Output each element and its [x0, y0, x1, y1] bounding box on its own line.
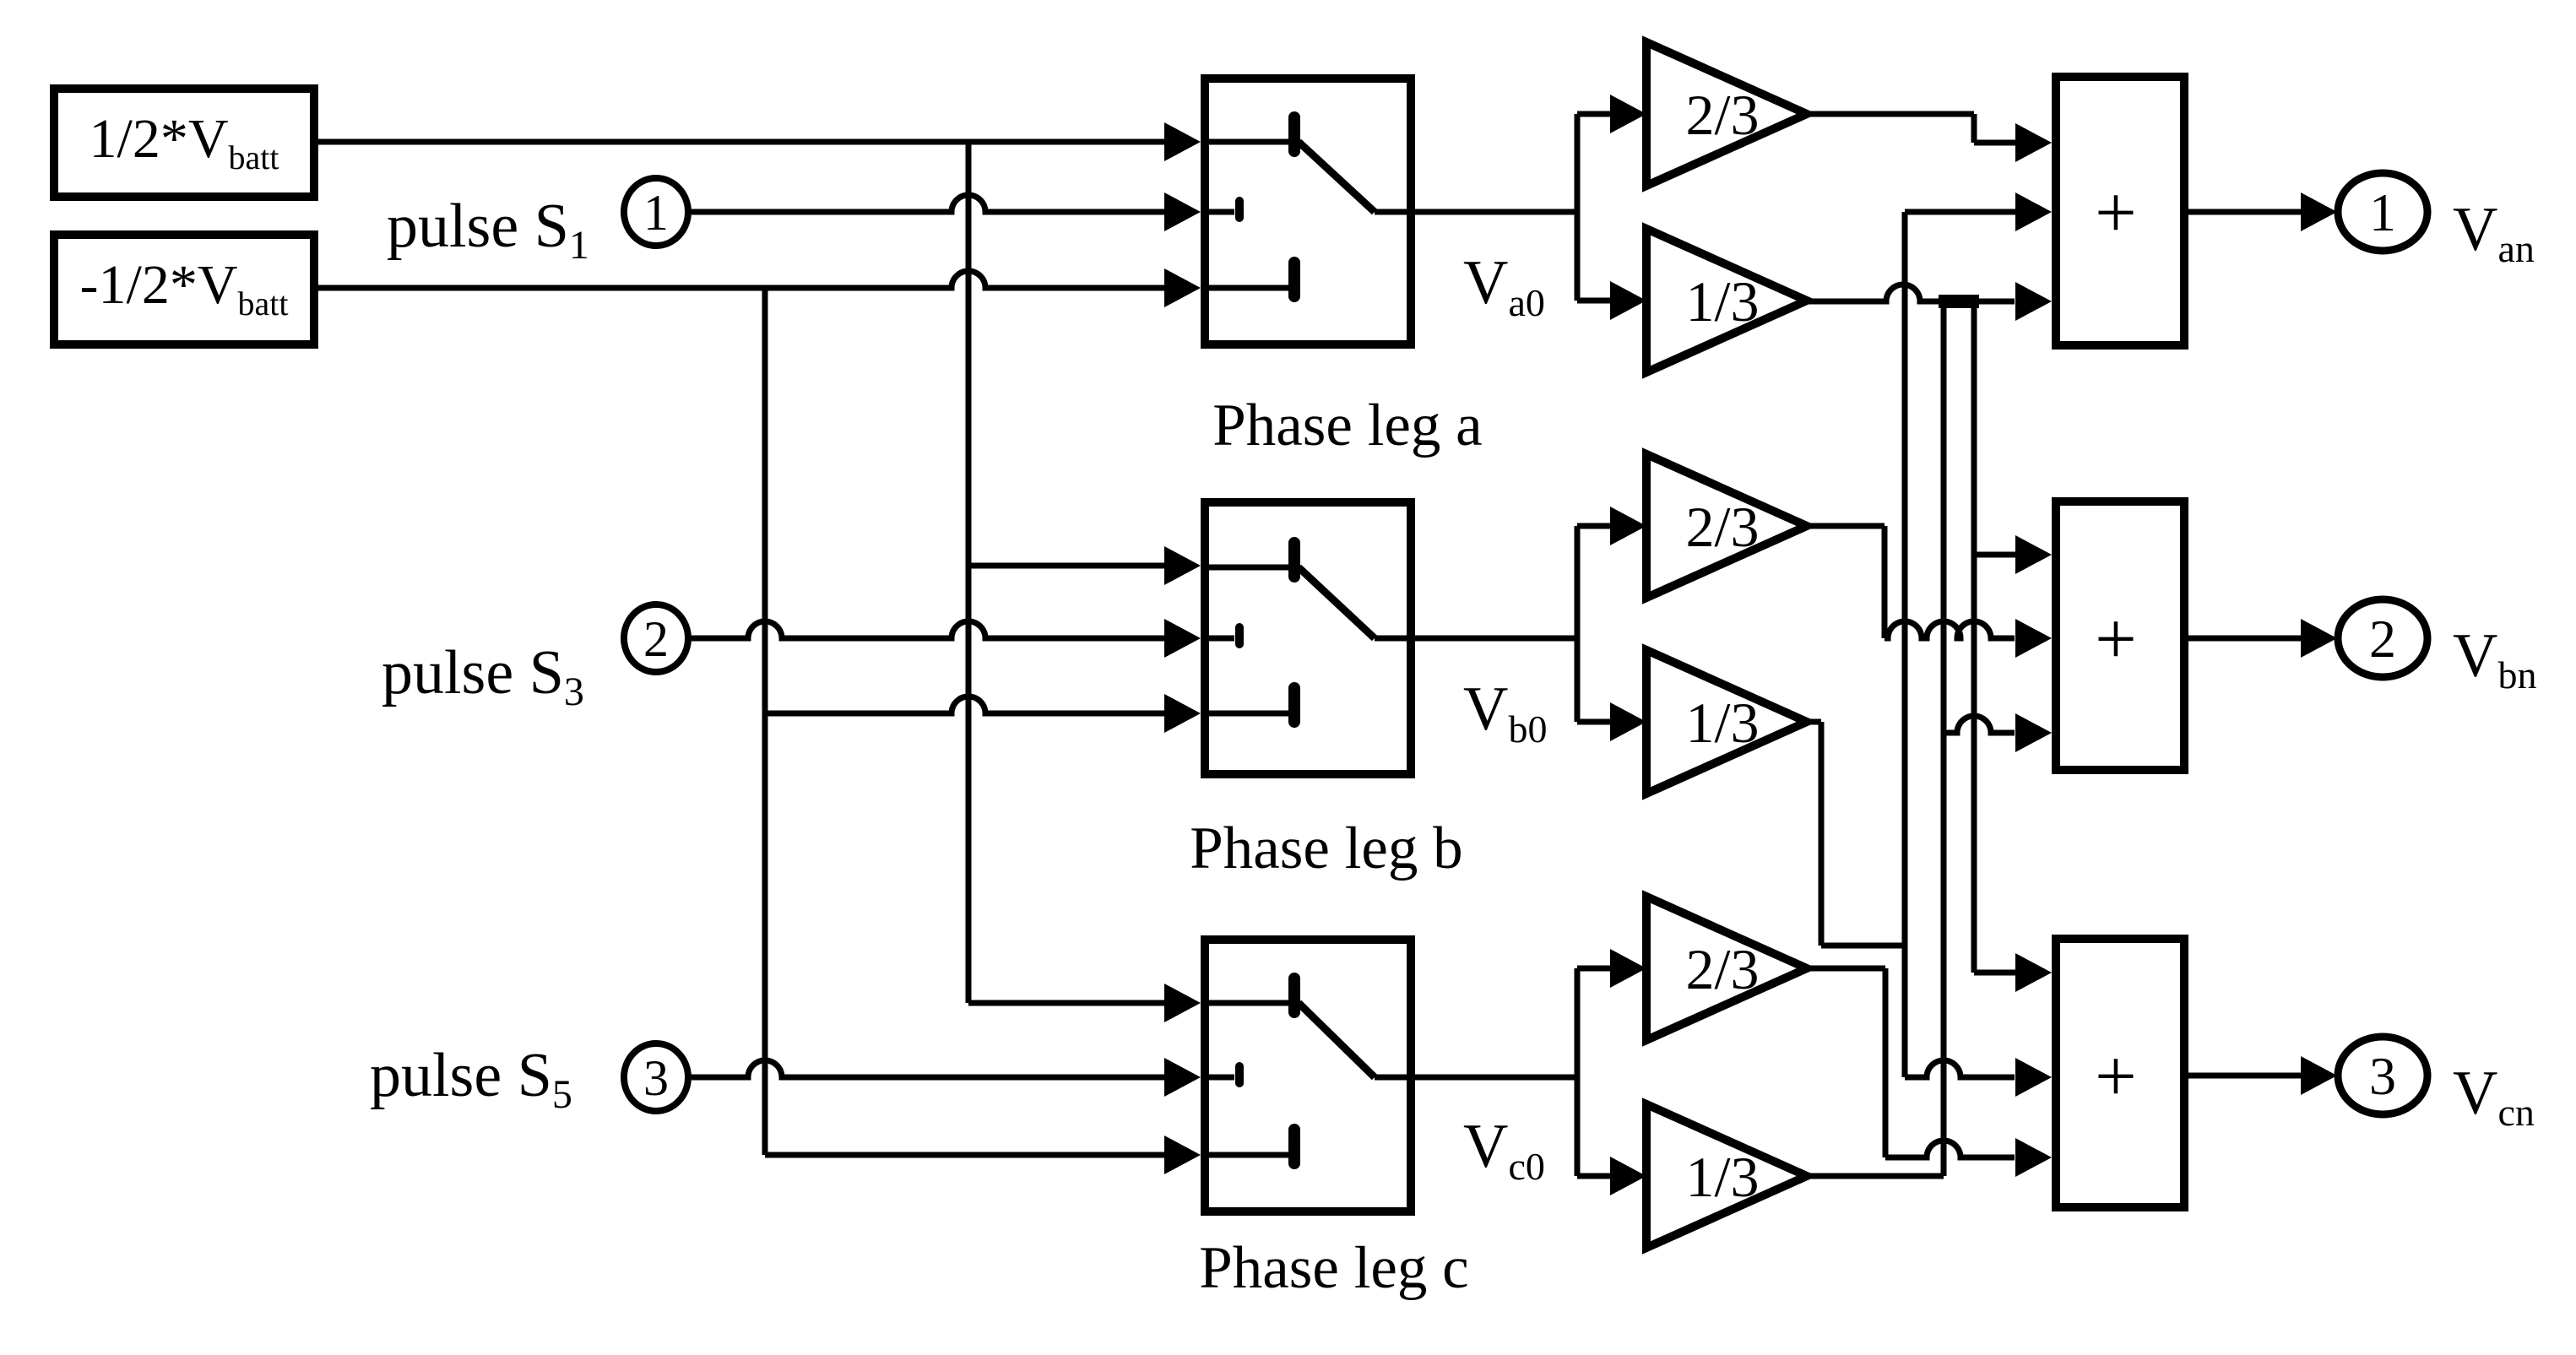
svg-text:1: 1 — [643, 185, 669, 241]
svg-text:2/3: 2/3 — [1686, 83, 1760, 147]
svg-text:Phase leg a: Phase leg a — [1212, 393, 1482, 458]
svg-text:+: + — [2095, 599, 2137, 680]
svg-text:pulse S3: pulse S3 — [382, 638, 584, 714]
svg-text:pulse S1: pulse S1 — [387, 192, 589, 268]
svg-text:1/3: 1/3 — [1686, 1145, 1760, 1209]
svg-text:1: 1 — [2369, 182, 2396, 242]
svg-text:2: 2 — [2369, 609, 2396, 669]
svg-text:Phase leg c: Phase leg c — [1199, 1235, 1468, 1301]
svg-text:1/3: 1/3 — [1686, 269, 1760, 333]
svg-text:3: 3 — [643, 1050, 669, 1106]
svg-text:pulse S5: pulse S5 — [370, 1041, 572, 1117]
svg-text:2/3: 2/3 — [1686, 937, 1760, 1001]
svg-text:Phase leg b: Phase leg b — [1190, 816, 1462, 881]
svg-text:1/3: 1/3 — [1686, 691, 1760, 755]
svg-text:+: + — [2095, 1036, 2137, 1118]
svg-text:+: + — [2095, 172, 2137, 254]
svg-text:3: 3 — [2369, 1046, 2396, 1106]
svg-text:2: 2 — [643, 611, 669, 667]
svg-text:2/3: 2/3 — [1686, 495, 1760, 559]
